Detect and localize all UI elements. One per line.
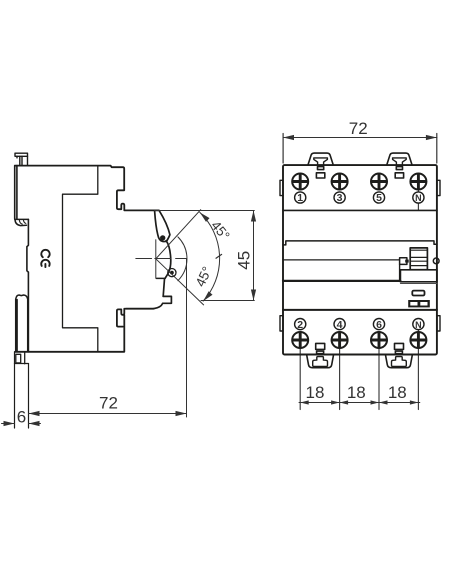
thick mid line [283,280,400,282]
label area line [283,259,400,261]
line above bottom terminals [283,309,437,311]
front face bulge [165,241,171,278]
angular dimension arc r63.5 with arrows [200,212,220,301]
housing step under toggle [156,277,165,279]
svg-text:18: 18 [388,383,407,402]
18 pitch dimensions [299,402,420,404]
terminal screws bottom [292,332,426,348]
terminal screws top [292,174,426,190]
top busbar hook 2 [387,153,412,178]
centerline crosshair [136,240,187,278]
svg-text:5: 5 [376,192,382,204]
svg-text:72: 72 [349,119,368,138]
side-view body outline [15,166,159,211]
test button [412,291,424,296]
svg-text:72: 72 [99,394,118,413]
CE mark (rotated, E glyph) [41,260,49,267]
svg-text:18: 18 [306,383,325,402]
svg-text:6: 6 [376,319,382,331]
top DIN clip nub [15,153,28,165]
indicator window pair [408,300,430,307]
inner swing arc r31 [178,237,187,281]
72 width dimension (front) [283,134,437,164]
top rail clip nose with spring hatching [15,219,29,225]
lower front face with tab [154,279,172,309]
top busbar hook 1 [308,153,333,178]
svg-text:N: N [415,193,422,203]
clip tail / 6-dim extension lines [15,352,29,428]
rail-side edge with groove jogs [27,219,29,351]
interior housing step contour [63,166,98,351]
toggle lever [155,211,170,242]
toggle pivot dot [160,235,165,240]
escutcheon plate [400,270,437,282]
side tabs [280,180,440,331]
terminal number badges top: 1 3 5 N [295,192,424,204]
6 clip dimension [2,423,41,425]
vertical link under window [399,264,401,281]
bottom clip lower details [15,352,29,364]
bottom movable clip [16,295,28,351]
inner line below top terminals [283,209,437,211]
svg-text:18: 18 [347,383,366,402]
N pole top centerline segment [417,190,419,211]
svg-text:4: 4 [337,319,343,331]
terminal number badges bottom: 2 4 6 N [295,319,424,331]
side-view left back double edge [15,166,17,219]
CE mark (rotated, C glyph) [41,250,49,257]
front outline [283,165,437,354]
svg-text:1: 1 [297,192,303,204]
svg-text:3: 3 [337,192,343,204]
toggle handle [410,248,427,270]
72 depth dimension (side) [186,259,188,417]
45-degree rays [156,210,204,305]
arc zero tick [216,254,222,258]
45 vertical dimension [155,211,255,301]
bottom mounting hook 2 [385,343,412,367]
svg-text:45: 45 [234,251,253,270]
escutcheon top line with end steps [283,241,437,245]
svg-text:2: 2 [297,319,303,331]
extension line through bottom N pole [417,330,419,410]
svg-text:6: 6 [17,408,26,427]
side-view bottom-right edge and notch [15,309,154,352]
extension lines from bottom screws [300,348,379,409]
lower pivot circled dot [168,269,176,277]
padlock circle at right edge [433,258,439,264]
toggle window square [400,258,407,265]
bottom mounting hook 1 [307,343,334,367]
svg-text:N: N [415,320,422,330]
